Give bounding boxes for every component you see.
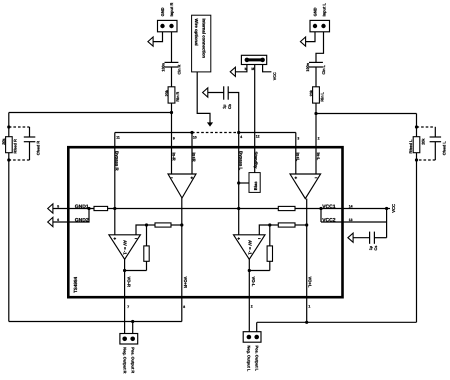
wire ground to Cb xyxy=(208,92,224,94)
wire pin Bypass R xyxy=(114,133,116,235)
svg-text:In+R: In+R xyxy=(192,153,197,162)
wire GND1 into IC xyxy=(53,208,94,210)
wire CN1 pin2 to Cin R xyxy=(171,32,173,63)
svg-text:Wire optional: Wire optional xyxy=(194,19,199,46)
connector CN1 Input R xyxy=(158,20,178,31)
ground (Cb) xyxy=(203,88,208,97)
junction VO+L to bottom wire xyxy=(305,321,308,324)
wire optional Cfeed R bottom (dashed) xyxy=(9,159,30,161)
svg-text:1µ: 1µ xyxy=(223,105,227,109)
svg-text:Neg. Output R: Neg. Output R xyxy=(122,347,127,373)
svg-text:Pos. Output L: Pos. Output L xyxy=(255,346,260,372)
connector J1 standby jumper with shunt xyxy=(241,55,266,64)
wire pin In+L xyxy=(295,133,297,175)
junction feedback node R xyxy=(145,223,148,226)
wire bias block to Bypass L xyxy=(239,182,249,184)
wire Rin R to pin In-R xyxy=(171,103,173,174)
svg-text:Input L: Input L xyxy=(322,3,327,17)
wire VCC down to Cs xyxy=(386,209,388,238)
wire output L minus link xyxy=(259,225,270,235)
ground (input L) xyxy=(300,37,305,46)
wire feedback R vertical resistor to output xyxy=(146,261,148,270)
arrowhead note pointer xyxy=(207,122,213,126)
svg-text:Cfeed R: Cfeed R xyxy=(37,141,41,156)
capacitor Cs xyxy=(370,232,375,244)
wire VCC bracket xyxy=(320,209,322,223)
svg-text:VCC: VCC xyxy=(273,72,277,80)
wire feedback node L down xyxy=(269,225,271,246)
wire pin VO-R xyxy=(124,259,126,333)
wire jumper pin2 to Standby pin xyxy=(254,65,256,173)
wire VCC junction to label xyxy=(387,208,390,210)
svg-text:5: 5 xyxy=(57,204,59,208)
svg-text:M: M xyxy=(251,67,254,71)
svg-text:TS4984: TS4984 xyxy=(73,276,78,293)
wire feedback L top xyxy=(316,113,417,115)
capacitor Cfeed R xyxy=(24,137,36,142)
wire feedback R left side xyxy=(8,113,10,322)
wire optional Cfeed R top (dashed) xyxy=(9,126,30,128)
junction Rfeed R bottom xyxy=(7,158,10,161)
resistor bias right xyxy=(278,206,295,210)
svg-text:Pos. Output R: Pos. Output R xyxy=(130,347,135,373)
svg-text:13: 13 xyxy=(349,218,353,222)
wire pin VO-L xyxy=(248,259,250,331)
svg-text:10: 10 xyxy=(193,135,197,139)
wire Cfeed L upper lead xyxy=(434,127,436,137)
wire strap Bypass R to In+R xyxy=(115,132,192,134)
svg-text:Cin L: Cin L xyxy=(322,64,326,74)
ground GND2 xyxy=(48,217,53,226)
wire Cfeed R upper lead xyxy=(29,127,31,137)
svg-text:In+L: In+L xyxy=(296,153,301,162)
svg-text:VO+R: VO+R xyxy=(183,277,188,289)
wire Cs right lead xyxy=(374,237,386,239)
plus mark (input L op-amp) xyxy=(295,177,298,180)
svg-text:4: 4 xyxy=(240,135,242,139)
svg-text:Standby: Standby xyxy=(254,152,259,170)
wire feedback node R down xyxy=(146,225,148,246)
capacitor Cin L xyxy=(309,62,323,67)
wire jumper pin1 to ground xyxy=(235,65,247,72)
svg-text:9: 9 xyxy=(173,136,175,140)
svg-text:VO+L: VO+L xyxy=(308,277,313,288)
wire optional Cfeed L bottom (dashed) xyxy=(417,159,436,161)
resistor Rfeed L xyxy=(413,137,420,153)
svg-text:Cfeed L: Cfeed L xyxy=(442,141,446,156)
ground (jumper) xyxy=(230,67,235,76)
plus mark (output L op-amp) xyxy=(237,237,240,240)
wire pin VO+L xyxy=(306,199,308,323)
svg-text:GND: GND xyxy=(313,7,318,16)
resistor Rin L xyxy=(313,87,320,103)
wire feedback R top xyxy=(9,112,172,114)
wire feedback node R to resistor xyxy=(147,224,156,226)
junction output R xyxy=(123,269,126,272)
junction In-R / feedback R xyxy=(170,111,173,114)
ground (input R) xyxy=(148,37,153,46)
wire feedback L bottom xyxy=(257,321,417,323)
svg-text:Bypass R: Bypass R xyxy=(115,151,120,171)
svg-text:100n: 100n xyxy=(306,62,310,71)
wire Cfeed L lower lead xyxy=(434,142,436,160)
plus mark (input R op-amp) xyxy=(191,177,194,180)
svg-text:20k: 20k xyxy=(421,138,425,145)
svg-text:6: 6 xyxy=(57,218,59,222)
wire Cin R to Rin R xyxy=(171,67,173,87)
wire pin In+R xyxy=(191,133,193,175)
minus mark (input R op-amp) xyxy=(170,177,173,179)
svg-text:11: 11 xyxy=(116,136,120,140)
wire GND2 into IC xyxy=(53,209,89,223)
junction feedback node L xyxy=(268,223,271,226)
svg-text:7: 7 xyxy=(127,305,129,309)
wire feedback L vertical resistor to output xyxy=(269,261,271,270)
wire output L bottom link xyxy=(249,270,269,272)
resistor feedback R horizontal xyxy=(155,223,171,227)
junction output L xyxy=(248,269,251,272)
svg-text:Bias: Bias xyxy=(253,181,258,191)
junction VO+L feedback xyxy=(305,223,308,226)
wire feedback resistor L to VO+L line xyxy=(295,224,307,226)
connector CN4 Output L xyxy=(243,332,261,343)
IC U1 TS4984 body xyxy=(68,147,342,297)
svg-text:Rfeed R: Rfeed R xyxy=(13,139,17,154)
wire VCC2 row xyxy=(321,221,387,223)
junction Rfeed L bottom xyxy=(415,158,418,161)
svg-text:12: 12 xyxy=(256,135,260,139)
svg-text:Cb: Cb xyxy=(228,103,232,109)
svg-text:Cs: Cs xyxy=(374,246,378,251)
svg-text:VO-R: VO-R xyxy=(126,277,131,287)
wire feedback L right side xyxy=(416,114,418,323)
junction bias row / Bypass R xyxy=(113,207,116,210)
ground (Cs) xyxy=(348,233,353,242)
note box wire optional xyxy=(192,15,211,72)
resistor feedback L vertical xyxy=(267,246,272,261)
svg-text:3: 3 xyxy=(297,136,299,140)
junction CN3 pin2 xyxy=(131,320,134,323)
op-amp output stage R (AV=-1) xyxy=(109,235,140,259)
junction VCC supply xyxy=(385,207,388,210)
svg-text:2: 2 xyxy=(251,305,253,309)
svg-text:Rfeed L: Rfeed L xyxy=(409,139,413,154)
wire CN2 pin1 to ground xyxy=(306,32,315,42)
op-amp input stage R xyxy=(168,174,196,198)
svg-text:100n: 100n xyxy=(162,62,166,71)
junction In+R strap xyxy=(190,131,193,134)
wire Cin L to Rin L xyxy=(315,67,317,87)
wire bias row to VCC1 xyxy=(295,208,387,210)
svg-text:GND: GND xyxy=(160,7,165,16)
svg-text:14: 14 xyxy=(349,204,353,208)
wire optional Cfeed L top (dashed) xyxy=(417,126,436,128)
resistor feedback R vertical xyxy=(144,246,149,261)
op-amp output stage L (AV=-1) xyxy=(234,235,266,259)
wire CN4 pin2 riser xyxy=(256,322,258,331)
op-amp input stage L xyxy=(290,174,321,199)
svg-text:AV = -1: AV = -1 xyxy=(123,240,128,255)
svg-text:VCC2: VCC2 xyxy=(322,217,336,223)
minus mark (output L op-amp) xyxy=(258,238,261,240)
wire optional link In+R to Bypass L (dashed) xyxy=(192,132,239,134)
capacitor Cfeed L xyxy=(430,137,442,142)
ground GND1 xyxy=(48,204,53,213)
svg-text:2: 2 xyxy=(318,136,320,140)
wire feedback R bottom xyxy=(9,321,182,323)
minus mark (output R op-amp) xyxy=(135,238,138,240)
svg-text:8: 8 xyxy=(183,305,185,309)
svg-text:AV = -1: AV = -1 xyxy=(247,240,252,255)
svg-text:1: 1 xyxy=(308,305,310,309)
wire pin VO+R xyxy=(181,198,183,322)
resistor feedback L horizontal xyxy=(278,223,295,227)
junction VO+R feedback xyxy=(180,223,183,226)
svg-text:VO-L: VO-L xyxy=(251,277,256,287)
wire Cb to Bypass L node xyxy=(228,93,239,133)
svg-text:GND2: GND2 xyxy=(75,217,89,223)
resistor bias left xyxy=(94,206,108,210)
svg-text:Neg. Output L: Neg. Output L xyxy=(247,346,252,372)
wire Cs left lead xyxy=(353,237,370,239)
svg-text:1µ: 1µ xyxy=(369,246,373,250)
svg-text:Rin R: Rin R xyxy=(176,91,180,101)
junction bias row / Bypass L xyxy=(237,207,240,210)
wire output R minus link xyxy=(136,225,147,235)
connector CN3 Output R xyxy=(120,334,138,345)
svg-text:Rin L: Rin L xyxy=(320,91,324,101)
junction Rfeed R top xyxy=(7,125,10,128)
junction Rfeed L top xyxy=(415,125,418,128)
svg-text:Bypass L: Bypass L xyxy=(239,151,244,170)
connector CN2 Input L xyxy=(310,20,330,31)
junction GND2 to GND1 row xyxy=(87,207,90,210)
wire strap Bypass L to In+L xyxy=(239,132,296,134)
junction VCC bracket xyxy=(319,207,322,210)
svg-text:GND1: GND1 xyxy=(75,204,89,210)
wire bias row xyxy=(108,208,279,210)
svg-text:Input R: Input R xyxy=(169,3,174,17)
wire Rin L to pin In-L xyxy=(315,103,317,174)
wire output R bottom link xyxy=(125,270,147,272)
svg-text:In-R: In-R xyxy=(172,153,177,161)
svg-text:VCC1: VCC1 xyxy=(322,204,336,210)
wire CN3 pin2 riser xyxy=(132,322,134,334)
svg-text:20k: 20k xyxy=(2,138,6,145)
svg-text:20k: 20k xyxy=(165,89,169,96)
capacitor Cb xyxy=(224,86,229,99)
plus mark (output R op-amp) xyxy=(114,237,117,240)
wire CN1 pin1 to ground xyxy=(153,32,162,42)
svg-text:VCC: VCC xyxy=(391,204,396,213)
svg-text:Cin R: Cin R xyxy=(178,64,182,74)
wire CN2 pin2 to Cin L xyxy=(316,32,324,63)
capacitor Cin R xyxy=(165,62,179,67)
minus mark (input L op-amp) xyxy=(315,177,318,179)
svg-text:In-L: In-L xyxy=(316,153,321,161)
wire jumper pin3 to VCC xyxy=(263,65,272,72)
wire Cfeed R lower lead xyxy=(29,142,31,160)
svg-text:20k: 20k xyxy=(310,89,314,96)
wire pin Bypass L xyxy=(238,133,240,235)
wire feedback node L to resistor xyxy=(270,224,279,226)
svg-text:Internal connection: Internal connection xyxy=(201,19,206,59)
resistor Rfeed R xyxy=(6,137,13,153)
bias block xyxy=(249,173,260,193)
resistor Rin R xyxy=(168,87,175,103)
junction In-L / feedback L xyxy=(314,112,317,115)
junction Bypass L strap xyxy=(237,131,240,134)
junction Bypass L / bias xyxy=(237,181,240,184)
wire feedback resistor R to VO+R line xyxy=(171,224,182,226)
wire note pointer xyxy=(197,72,210,124)
